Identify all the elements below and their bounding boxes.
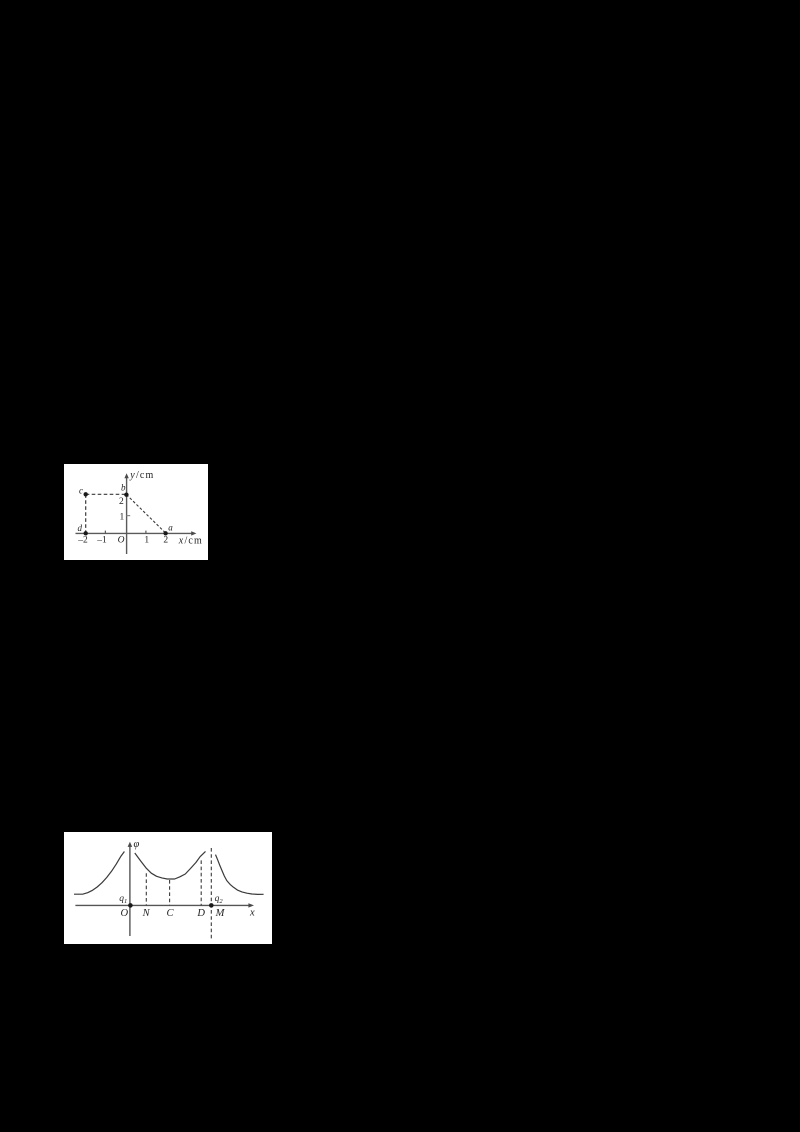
y axis [129, 845, 131, 937]
figure 1: x-y coordinate plot [64, 464, 208, 560]
figure 2: potential phi vs x plot [64, 832, 272, 944]
svg-text:c: c [79, 486, 83, 496]
tick y=1 [127, 515, 131, 517]
tick x=1 [145, 531, 147, 534]
dashed line D [200, 860, 202, 905]
svg-text:–2: –2 [77, 536, 88, 546]
svg-text:y/cm: y/cm [129, 470, 154, 481]
dashed line M [210, 848, 212, 940]
x axis arrowhead [191, 531, 196, 535]
x axis arrowhead [248, 903, 254, 907]
svg-text:1: 1 [144, 536, 149, 546]
dashed line b-a [126, 495, 165, 533]
curve left branch [74, 852, 124, 895]
y axis arrowhead [124, 473, 128, 478]
svg-text:d: d [78, 523, 83, 533]
svg-text:a: a [168, 523, 173, 533]
svg-text:C: C [166, 908, 174, 919]
svg-text:b: b [121, 483, 126, 493]
y axis arrowhead [128, 842, 133, 847]
svg-text:M: M [215, 908, 226, 919]
curve right branch [216, 855, 264, 895]
svg-text:x: x [249, 908, 255, 919]
svg-text:–1: –1 [96, 536, 107, 546]
svg-text:2: 2 [163, 536, 168, 546]
y axis [126, 476, 128, 554]
svg-text:O: O [118, 536, 125, 546]
point b [124, 493, 128, 497]
point q1 at O [128, 903, 133, 908]
point c [84, 492, 88, 496]
dashed line c-d [85, 494, 87, 533]
dashed line C [169, 880, 171, 905]
point d [84, 531, 88, 535]
svg-text:x/cm: x/cm [178, 536, 203, 547]
x axis [75, 904, 251, 906]
point a [163, 531, 167, 535]
svg-text:φ: φ [134, 839, 140, 850]
svg-text:O: O [121, 908, 129, 919]
point q2 at M [209, 903, 214, 908]
svg-text:q2: q2 [215, 894, 224, 905]
svg-text:1: 1 [120, 513, 125, 523]
svg-text:q1: q1 [119, 894, 127, 905]
svg-text:D: D [196, 908, 205, 919]
dashed line N [145, 873, 147, 905]
x axis [76, 532, 195, 534]
svg-text:2: 2 [119, 497, 124, 507]
svg-text:N: N [142, 908, 151, 919]
curve middle branch [135, 851, 206, 879]
dashed line c-b [86, 493, 127, 495]
tick x=-1 [104, 531, 106, 534]
